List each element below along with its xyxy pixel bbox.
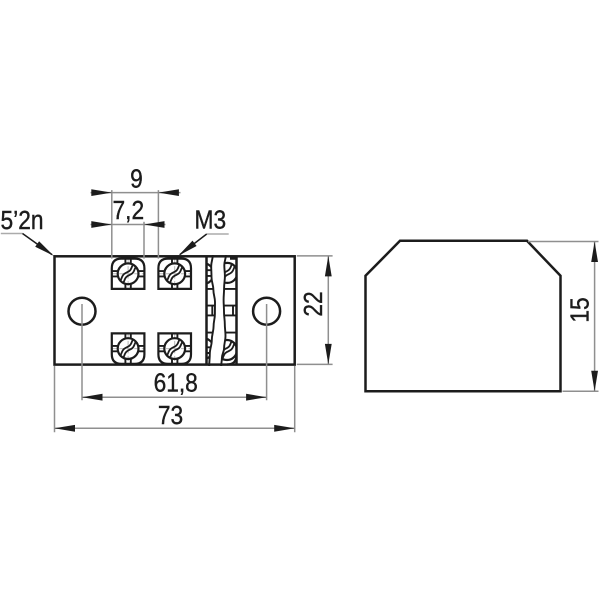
- svg-text:15: 15: [566, 297, 595, 322]
- mounting hole right: [253, 298, 280, 325]
- dimension 73 (overall length): [55, 366, 295, 432]
- dimension 61,8 (hole spacing): [82, 304, 267, 401]
- broken-out section column with partial poles: [193, 255, 237, 366]
- label M3 thread with leader arrow: [178, 206, 228, 255]
- dimension 15 (side view height): [528, 242, 599, 392]
- screw terminal top-left M3: [112, 259, 145, 289]
- svg-text:9: 9: [130, 165, 143, 194]
- break ribbon (wavy broken-view band): [209, 255, 226, 366]
- front view body outline: [55, 256, 295, 364]
- screw terminal top-right M3: [158, 259, 191, 289]
- screw terminal bottom-right M3: [158, 333, 191, 363]
- svg-text:61,8: 61,8: [154, 369, 198, 398]
- svg-text:7,2: 7,2: [112, 196, 144, 225]
- label 5’2n with leader arrow to top-left corner: [1, 207, 54, 256]
- mounting hole left: [69, 298, 96, 325]
- break column border lines: [207, 256, 237, 364]
- side view outline with chamfered top corners, height 15: [366, 241, 561, 391]
- svg-text:22: 22: [300, 291, 329, 316]
- svg-text:M3: M3: [195, 206, 227, 235]
- svg-text:5’2n: 5’2n: [1, 207, 44, 236]
- dimension 9 (terminal pitch): [91, 165, 181, 258]
- dimension 22 (body height): [297, 256, 333, 365]
- dimension 7,2 (housing width): [91, 196, 166, 258]
- screw terminal bottom-left M3: [112, 333, 145, 363]
- svg-text:73: 73: [158, 402, 183, 431]
